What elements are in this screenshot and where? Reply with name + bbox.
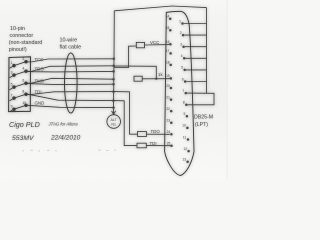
scan speckles [22,150,116,152]
node J1 pin row 3 [10,82,28,90]
connector J1 10-pin header body [9,57,31,112]
junction main vertical bus at x=114 [113,11,116,108]
wire cable strand 2 from row2 [26,66,114,72]
wire TDI branch down to resistor R4 [113,101,137,146]
wire ground stub pin5 [186,69,207,71]
scan noise texture [0,0,1,1]
resistor R2 1k box [134,76,142,81]
wire GND strand 8 from row5 [26,105,114,107]
label 10-pin connector note [9,26,43,53]
node J1 pin row 2 [10,70,28,78]
wire strand 7 from row4 [26,94,113,100]
wire ground stub pin7 and tie loop pins 7-8 [187,93,214,105]
wire GND arrow into note circle [112,108,116,115]
scan halo layer [9,6,214,176]
label DB25-M (LPT) [194,115,213,128]
wire ground stub pin4 [186,57,207,59]
resistor R4 box [137,143,146,148]
connector CN2 DB25-M body outline [165,11,194,175]
wire right ground bus vertical [206,8,208,94]
label J1 pin numbers [11,57,27,108]
label DB25 left column pin numbers 14-25 [166,15,171,146]
scan edge artifact right [227,0,228,180]
wire top loop from junction bus to DB25 ground bus [114,6,206,11]
resistor R3 box [138,132,147,137]
wire strand 4 from row3 [26,78,114,83]
node J1 pin row 1 [10,60,28,68]
label 10-wire flat cable note [60,38,82,51]
wire TDI strand 6 from row4 [26,92,114,95]
node J1 pin row 4 [10,93,28,101]
wire ground stub pin2 [184,34,206,36]
node junction dot R2 output [155,78,157,80]
wire from R3 to DB25 pin [147,133,170,135]
node note circle ALT N1 [107,115,121,129]
wire TDO branch down to resistor R3 [114,92,138,135]
wire ground stub pin1 [184,23,207,25]
wire from R1 to DB25 pin [145,44,170,46]
DB25 right pin column dots [181,22,190,163]
wire ground stub pin6 [187,81,207,83]
cable ellipse 10-wire flat cable symbol [65,53,78,113]
label note circle text [111,118,118,127]
wire VCC branch up from y67 to resistor R1 [114,46,137,68]
node junction dots on vertical bus [112,58,115,109]
wire TMS strand 5 from row3 [26,83,114,84]
wire TDO strand 3 from row2 [26,70,114,73]
wire from R2 to DB25 pin with TMS drop [114,66,170,79]
node J1 pin row 5 [10,104,28,112]
wire TCK from J1 to junction column [26,59,114,62]
label DB25 right column pin numbers 1-13 [179,19,187,161]
wire ground stub pin3 [185,46,207,48]
wire from R4 to DB25 pin [146,145,170,147]
DB25 left pin column dots [169,17,173,147]
resistor R1 100 ohm box [136,42,144,47]
